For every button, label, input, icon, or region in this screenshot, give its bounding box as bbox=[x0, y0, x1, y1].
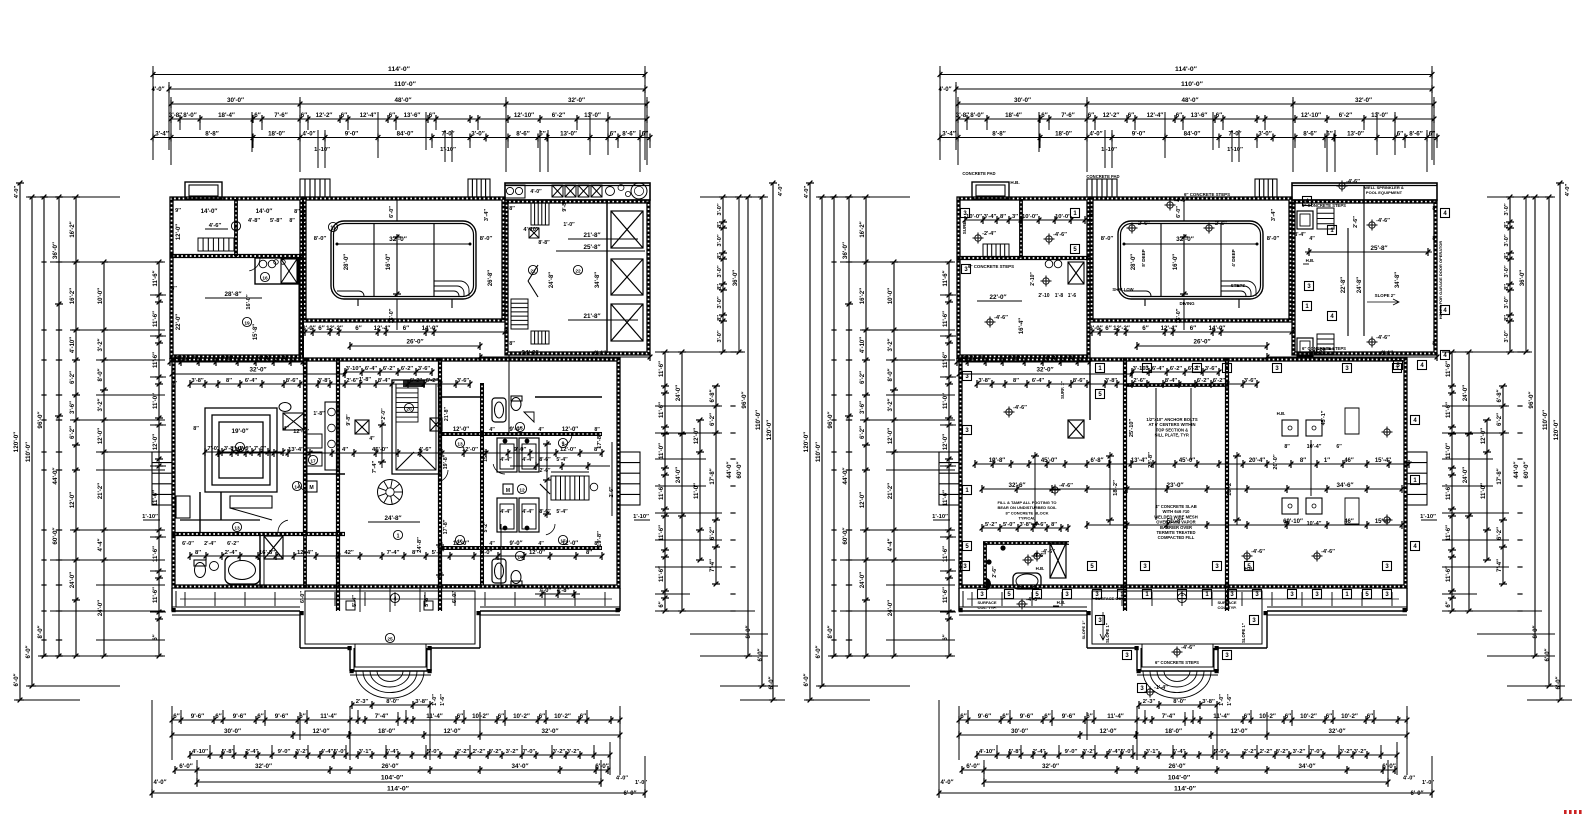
svg-text:8″: 8″ bbox=[171, 286, 177, 292]
svg-text:6″: 6″ bbox=[1002, 713, 1008, 720]
svg-text:1'-6″: 1'-6″ bbox=[440, 694, 446, 706]
svg-text:2'-0″: 2'-0″ bbox=[381, 408, 387, 420]
svg-text:3'-6″: 3'-6″ bbox=[418, 366, 431, 372]
svg-text:12'-4″: 12'-4″ bbox=[297, 550, 313, 556]
svg-text:6'-2″: 6'-2″ bbox=[426, 378, 439, 384]
svg-text:3'-2″: 3'-2″ bbox=[98, 398, 104, 411]
svg-text:3'-6″: 3'-6″ bbox=[1244, 378, 1257, 384]
svg-text:2'-10: 2'-10 bbox=[1038, 293, 1049, 299]
svg-text:6'-0″: 6'-0″ bbox=[1176, 206, 1182, 218]
svg-text:12'-0″: 12'-0″ bbox=[943, 434, 949, 450]
svg-text:10'-2″: 10'-2″ bbox=[513, 713, 530, 720]
svg-text:9'-0″: 9'-0″ bbox=[345, 131, 358, 138]
svg-text:18'-4″: 18'-4″ bbox=[218, 112, 235, 119]
svg-text:96'-0″: 96'-0″ bbox=[1528, 391, 1535, 408]
svg-text:11'-4″: 11'-4″ bbox=[1107, 713, 1124, 720]
svg-text:11'-6″: 11'-6″ bbox=[943, 587, 949, 603]
svg-text:6'-4″: 6'-4″ bbox=[1046, 356, 1059, 362]
svg-text:4'-0″: 4'-0″ bbox=[804, 186, 810, 199]
svg-text:6'-0″: 6'-0″ bbox=[182, 541, 194, 547]
svg-text:18'-0″: 18'-0″ bbox=[1055, 131, 1072, 138]
svg-text:1'-10″: 1'-10″ bbox=[1227, 147, 1243, 153]
svg-text:12'-2″: 12'-2″ bbox=[326, 325, 343, 332]
svg-text:16'-2″: 16'-2″ bbox=[860, 221, 866, 237]
svg-text:12'-0″: 12'-0″ bbox=[443, 728, 460, 735]
svg-text:8″: 8″ bbox=[1432, 341, 1438, 347]
svg-text:5'-2″: 5'-2″ bbox=[483, 521, 489, 532]
svg-text:8'-0″: 8'-0″ bbox=[746, 625, 752, 638]
svg-text:6″: 6″ bbox=[1044, 713, 1050, 720]
svg-text:8'-0″: 8'-0″ bbox=[1089, 325, 1102, 332]
svg-text:6″: 6″ bbox=[429, 112, 435, 119]
svg-text:6'-4″: 6'-4″ bbox=[971, 356, 984, 362]
svg-text:8'-8″: 8'-8″ bbox=[538, 240, 550, 246]
svg-text:120'-0″: 120'-0″ bbox=[803, 432, 810, 453]
svg-text:4″: 4″ bbox=[538, 541, 544, 547]
svg-text:12'-0″: 12'-0″ bbox=[860, 492, 866, 508]
svg-text:13'-4″: 13'-4″ bbox=[1131, 458, 1147, 464]
svg-text:3'-4″: 3'-4″ bbox=[984, 214, 997, 220]
svg-text:SILL PLATE, TYP.: SILL PLATE, TYP. bbox=[1155, 433, 1190, 438]
svg-text:7'-4″: 7'-4″ bbox=[1162, 713, 1175, 720]
svg-text:3'-2″: 3'-2″ bbox=[296, 749, 309, 755]
svg-text:5'-0″: 5'-0″ bbox=[432, 550, 445, 556]
svg-text:8'-2″: 8'-2″ bbox=[489, 749, 502, 755]
svg-text:12'-4″: 12'-4″ bbox=[1147, 112, 1164, 119]
svg-text:12'-0″: 12'-0″ bbox=[312, 728, 329, 735]
svg-text:11'-0″: 11'-0″ bbox=[1481, 483, 1487, 499]
svg-text:11'-4″: 11'-4″ bbox=[320, 713, 337, 720]
svg-text:SLOPE 1″: SLOPE 1″ bbox=[1105, 623, 1110, 643]
svg-text:34'-0″: 34'-0″ bbox=[511, 763, 528, 770]
svg-text:3'-2″: 3'-2″ bbox=[888, 338, 894, 351]
svg-text:3'-0″: 3'-0″ bbox=[717, 296, 723, 308]
svg-text:110'-0″: 110'-0″ bbox=[1542, 410, 1549, 430]
svg-text:13'-0″: 13'-0″ bbox=[584, 112, 601, 119]
svg-text:12'-2″: 12'-2″ bbox=[1103, 112, 1120, 119]
svg-text:DIVING: DIVING bbox=[1179, 301, 1195, 306]
svg-text:19'-8″: 19'-8″ bbox=[989, 458, 1005, 464]
svg-text:2'-6″: 2'-6″ bbox=[992, 566, 998, 578]
svg-text:16'-0″: 16'-0″ bbox=[386, 254, 392, 270]
svg-text:6'-0″: 6'-0″ bbox=[624, 791, 637, 797]
svg-text:4'-4″: 4'-4″ bbox=[169, 356, 182, 362]
svg-text:4'-10″: 4'-10″ bbox=[860, 337, 866, 353]
svg-text:8″: 8″ bbox=[1300, 458, 1306, 464]
svg-text:6″: 6″ bbox=[1367, 713, 1373, 720]
svg-text:3'-0″: 3'-0″ bbox=[471, 131, 484, 138]
svg-text:-4'-6″: -4'-6″ bbox=[1251, 549, 1265, 555]
svg-text:110'-0″: 110'-0″ bbox=[755, 410, 762, 430]
svg-text:12'-0″: 12'-0″ bbox=[453, 427, 469, 433]
svg-text:11'-6″: 11'-6″ bbox=[659, 525, 665, 541]
svg-text:3'-2″: 3'-2″ bbox=[567, 749, 580, 755]
svg-text:8″: 8″ bbox=[171, 381, 177, 387]
svg-text:-4'-6″: -4'-6″ bbox=[1321, 549, 1335, 555]
svg-text:4'-0″: 4'-0″ bbox=[1090, 132, 1103, 138]
svg-text:6″: 6″ bbox=[301, 112, 307, 119]
svg-text:3'-0″: 3'-0″ bbox=[717, 203, 723, 215]
svg-text:6″: 6″ bbox=[1244, 713, 1250, 720]
svg-text:M: M bbox=[309, 485, 313, 491]
svg-text:6'-4″: 6'-4″ bbox=[1152, 366, 1165, 372]
svg-text:9'-6″: 9'-6″ bbox=[978, 713, 991, 720]
svg-text:19: 19 bbox=[244, 320, 250, 326]
svg-text:30'-0″: 30'-0″ bbox=[1014, 97, 1031, 104]
svg-text:10'-4″: 10'-4″ bbox=[1307, 521, 1322, 527]
svg-text:34'-0″: 34'-0″ bbox=[521, 350, 538, 357]
svg-text:96'-0″: 96'-0″ bbox=[741, 391, 748, 408]
svg-text:8″: 8″ bbox=[412, 550, 418, 556]
svg-text:5'-8″: 5'-8″ bbox=[270, 218, 282, 224]
svg-text:13'-6″: 13'-6″ bbox=[1191, 112, 1208, 119]
svg-text:21'-2″: 21'-2″ bbox=[98, 483, 104, 499]
svg-text:TYPICAL: TYPICAL bbox=[1018, 516, 1036, 521]
svg-text:6'-0″: 6'-0″ bbox=[804, 673, 810, 686]
svg-text:22'-8″: 22'-8″ bbox=[1341, 277, 1347, 293]
svg-text:12'-4″: 12'-4″ bbox=[360, 112, 377, 119]
svg-text:6″: 6″ bbox=[389, 112, 395, 119]
svg-text:24'-0″: 24'-0″ bbox=[98, 600, 104, 616]
svg-text:6″: 6″ bbox=[1041, 112, 1047, 119]
svg-text:6″: 6″ bbox=[1336, 444, 1342, 450]
svg-text:9'-0″: 9'-0″ bbox=[1065, 749, 1078, 755]
svg-text:4'-4″: 4'-4″ bbox=[1063, 356, 1076, 362]
svg-text:8'-4″: 8'-4″ bbox=[1294, 232, 1306, 238]
svg-text:32'-0″: 32'-0″ bbox=[1176, 236, 1194, 243]
svg-text:8″: 8″ bbox=[1284, 444, 1290, 450]
svg-text:110'-0″: 110'-0″ bbox=[394, 81, 417, 88]
svg-text:3'-4″: 3'-4″ bbox=[155, 131, 168, 138]
svg-text:3'-1″: 3'-1″ bbox=[1146, 749, 1159, 755]
svg-text:6″: 6″ bbox=[580, 713, 586, 720]
svg-text:1'-0″: 1'-0″ bbox=[1219, 694, 1225, 706]
svg-text:17'-8″: 17'-8″ bbox=[710, 468, 716, 484]
svg-text:-4'-6″: -4'-6″ bbox=[994, 315, 1008, 321]
svg-text:12'-0″: 12'-0″ bbox=[694, 428, 700, 444]
svg-text:4'-10″: 4'-10″ bbox=[192, 749, 208, 755]
svg-text:6'-2″: 6'-2″ bbox=[401, 366, 414, 372]
svg-text:4'-0″: 4'-0″ bbox=[941, 780, 954, 786]
svg-text:7'-6″: 7'-6″ bbox=[274, 112, 287, 119]
svg-text:8″: 8″ bbox=[1504, 222, 1510, 228]
svg-text:8″: 8″ bbox=[1013, 378, 1019, 384]
svg-text:3'-8″: 3'-8″ bbox=[415, 699, 428, 705]
svg-text:12'-0″: 12'-0″ bbox=[1099, 728, 1116, 735]
svg-text:6'-8″: 6'-8″ bbox=[710, 389, 716, 402]
svg-text:7'-0″: 7'-0″ bbox=[539, 588, 552, 594]
svg-text:3'-4″: 3'-4″ bbox=[484, 209, 490, 221]
svg-text:12'-4″: 12'-4″ bbox=[374, 325, 391, 332]
svg-text:12'-0″: 12'-0″ bbox=[453, 541, 469, 547]
svg-text:-4'-6″: -4'-6″ bbox=[1181, 645, 1195, 651]
svg-text:3'-2″: 3'-2″ bbox=[1340, 749, 1353, 755]
svg-text:M: M bbox=[506, 488, 510, 494]
svg-text:4'-4″: 4'-4″ bbox=[500, 457, 512, 463]
svg-text:25'-8″: 25'-8″ bbox=[1370, 245, 1387, 252]
svg-text:6'-2″: 6'-2″ bbox=[1170, 366, 1183, 372]
svg-text:6″: 6″ bbox=[1190, 325, 1196, 332]
svg-text:4' DEEP: 4' DEEP bbox=[1231, 249, 1236, 266]
svg-text:10'-0″: 10'-0″ bbox=[888, 288, 894, 304]
svg-text:114'-0″: 114'-0″ bbox=[387, 786, 410, 793]
svg-text:SURFACE COL.: SURFACE COL. bbox=[1095, 596, 1125, 601]
svg-text:13'-0″: 13'-0″ bbox=[560, 131, 577, 138]
svg-text:6'-0″: 6'-0″ bbox=[966, 763, 980, 770]
svg-text:COMPACTED FILL: COMPACTED FILL bbox=[1158, 535, 1195, 540]
svg-text:-2'-4″: -2'-4″ bbox=[982, 231, 996, 237]
svg-text:28'-8″: 28'-8″ bbox=[224, 291, 241, 298]
svg-text:8'-0″: 8'-0″ bbox=[828, 625, 834, 638]
svg-text:H.B.: H.B. bbox=[1277, 411, 1286, 416]
svg-text:12: 12 bbox=[519, 487, 525, 493]
svg-text:3'-8″: 3'-8″ bbox=[1105, 378, 1118, 384]
svg-text:8″: 8″ bbox=[1432, 206, 1438, 212]
svg-text:25'-8″: 25'-8″ bbox=[583, 244, 600, 251]
svg-text:SURF. 1″: SURF. 1″ bbox=[1060, 381, 1065, 399]
svg-text:8'-8″: 8'-8″ bbox=[992, 131, 1005, 138]
svg-text:12'-0″: 12'-0″ bbox=[231, 447, 247, 453]
svg-text:4'-0″: 4'-0″ bbox=[1403, 776, 1415, 782]
svg-text:H.B.: H.B. bbox=[1306, 258, 1315, 263]
svg-text:8″: 8″ bbox=[289, 218, 295, 224]
svg-text:12'-0″: 12'-0″ bbox=[176, 224, 182, 240]
svg-text:60'-0″: 60'-0″ bbox=[736, 461, 743, 478]
svg-text:12'-0″: 12'-0″ bbox=[562, 427, 578, 433]
svg-text:11'-6″: 11'-6″ bbox=[153, 587, 159, 603]
svg-text:1: 1 bbox=[397, 533, 400, 539]
svg-text:110'-0″: 110'-0″ bbox=[25, 442, 32, 462]
svg-text:45'-0″: 45'-0″ bbox=[372, 447, 388, 453]
svg-text:6'-0″: 6'-0″ bbox=[300, 591, 306, 603]
svg-text:44'-0″: 44'-0″ bbox=[1513, 461, 1520, 478]
svg-text:4'-0″: 4'-0″ bbox=[14, 186, 20, 199]
svg-text:4'-6″: 4'-6″ bbox=[419, 447, 432, 453]
svg-text:4'-0″: 4'-0″ bbox=[154, 780, 167, 786]
svg-text:3'-8″: 3'-8″ bbox=[1019, 522, 1031, 528]
svg-text:5'-0″: 5'-0″ bbox=[1121, 749, 1134, 755]
svg-text:8'-0″: 8'-0″ bbox=[1173, 699, 1186, 705]
svg-text:12'-0″: 12'-0″ bbox=[153, 434, 159, 450]
svg-text:20'-4″: 20'-4″ bbox=[1249, 458, 1265, 464]
svg-text:6″: 6″ bbox=[318, 325, 324, 332]
svg-text:3'-0″: 3'-0″ bbox=[1504, 203, 1510, 215]
svg-text:4″: 4″ bbox=[369, 436, 375, 442]
svg-text:32'-0″: 32'-0″ bbox=[255, 763, 272, 770]
svg-text:2'-6″: 2'-6″ bbox=[346, 378, 359, 384]
svg-text:2'-3″: 2'-3″ bbox=[356, 699, 369, 705]
svg-text:10'-0″: 10'-0″ bbox=[1022, 214, 1038, 220]
svg-text:24'-8″: 24'-8″ bbox=[1357, 277, 1363, 293]
svg-text:8'-6″: 8'-6″ bbox=[516, 131, 529, 138]
svg-text:3'-8″: 3'-8″ bbox=[978, 378, 991, 384]
svg-text:6″: 6″ bbox=[498, 713, 504, 720]
svg-text:8'-0″: 8'-0″ bbox=[1533, 625, 1539, 638]
svg-text:6″: 6″ bbox=[403, 325, 409, 332]
svg-text:84'-0″: 84'-0″ bbox=[1184, 131, 1201, 138]
svg-text:-1'-4″: -1'-4″ bbox=[1154, 685, 1168, 691]
svg-text:34'-0″: 34'-0″ bbox=[1298, 763, 1315, 770]
svg-text:3'-6″: 3'-6″ bbox=[1205, 366, 1218, 372]
svg-text:11'-6″: 11'-6″ bbox=[659, 402, 665, 418]
svg-text:3'-0″: 3'-0″ bbox=[1504, 234, 1510, 246]
svg-text:6'-0″: 6'-0″ bbox=[389, 206, 395, 218]
svg-text:6″ CONCRETE STEPS: 6″ CONCRETE STEPS bbox=[1155, 660, 1199, 665]
svg-text:4'-4″: 4'-4″ bbox=[500, 509, 512, 515]
svg-text:16: 16 bbox=[262, 275, 268, 281]
svg-text:9: 9 bbox=[562, 441, 565, 447]
svg-text:4'-8″: 4'-8″ bbox=[248, 218, 260, 224]
svg-text:6'-0″: 6'-0″ bbox=[758, 648, 764, 661]
svg-text:9'-0″: 9'-0″ bbox=[1132, 131, 1145, 138]
svg-text:8″: 8″ bbox=[1051, 522, 1057, 528]
svg-text:6'-0″: 6'-0″ bbox=[179, 763, 193, 770]
svg-text:10'-2″: 10'-2″ bbox=[554, 713, 571, 720]
svg-text:120'-0″: 120'-0″ bbox=[1553, 420, 1560, 441]
svg-text:26'-0″: 26'-0″ bbox=[381, 763, 398, 770]
svg-text:10'-2″: 10'-2″ bbox=[1341, 713, 1358, 720]
svg-text:8'-0″: 8'-0″ bbox=[1267, 236, 1280, 242]
svg-text:5'-0″: 5'-0″ bbox=[334, 749, 347, 755]
svg-text:9'-0″: 9'-0″ bbox=[514, 447, 527, 453]
svg-text:4'-10″: 4'-10″ bbox=[979, 749, 995, 755]
svg-text:18'-0″: 18'-0″ bbox=[268, 131, 285, 138]
svg-text:12'-2″: 12'-2″ bbox=[316, 112, 333, 119]
svg-text:32'-0″: 32'-0″ bbox=[1328, 728, 1345, 735]
svg-text:15'-4″: 15'-4″ bbox=[1375, 458, 1391, 464]
svg-text:3'-8″: 3'-8″ bbox=[1202, 699, 1215, 705]
svg-text:1'-8: 1'-8 bbox=[1055, 293, 1064, 299]
svg-text:8″: 8″ bbox=[1000, 214, 1006, 220]
svg-text:6″: 6″ bbox=[173, 713, 179, 720]
svg-text:42″: 42″ bbox=[344, 550, 354, 556]
svg-text:104'-0″: 104'-0″ bbox=[1168, 775, 1191, 782]
svg-text:28'-8″: 28'-8″ bbox=[1148, 452, 1154, 468]
svg-text:4'-0″: 4'-0″ bbox=[303, 132, 316, 138]
svg-text:21'-8″: 21'-8″ bbox=[583, 313, 600, 320]
svg-text:-4'-6″: -4'-6″ bbox=[1013, 405, 1027, 411]
svg-text:8'-8″: 8'-8″ bbox=[205, 131, 218, 138]
svg-text:2'-10″: 2'-10″ bbox=[1030, 272, 1036, 286]
svg-text:24'-0″: 24'-0″ bbox=[676, 385, 682, 401]
svg-text:6″: 6″ bbox=[1285, 713, 1291, 720]
svg-text:6″: 6″ bbox=[960, 713, 966, 720]
svg-text:-4'-6″: -4'-6″ bbox=[1053, 232, 1067, 238]
svg-text:SLOPE 1″: SLOPE 1″ bbox=[1081, 621, 1086, 640]
svg-text:6″: 6″ bbox=[659, 601, 665, 607]
svg-text:14'-0″: 14'-0″ bbox=[422, 325, 439, 332]
svg-text:24'-8″: 24'-8″ bbox=[549, 272, 555, 288]
svg-text:13'-0″: 13'-0″ bbox=[1371, 112, 1388, 119]
svg-text:6″: 6″ bbox=[254, 112, 260, 119]
svg-text:3'-8″: 3'-8″ bbox=[318, 378, 331, 384]
svg-text:7'-4″: 7'-4″ bbox=[375, 713, 388, 720]
svg-text:5'-4″: 5'-4″ bbox=[556, 509, 568, 515]
svg-text:3'-8″: 3'-8″ bbox=[191, 378, 204, 384]
svg-text:8'-0″: 8'-0″ bbox=[888, 368, 894, 381]
svg-text:2'-3″: 2'-3″ bbox=[1143, 699, 1156, 705]
svg-text:32'-0″: 32'-0″ bbox=[1036, 367, 1053, 374]
svg-text:6″ CONCRETE STEPS: 6″ CONCRETE STEPS bbox=[1302, 346, 1346, 351]
svg-text:8″: 8″ bbox=[717, 253, 723, 259]
svg-text:SHALLOW: SHALLOW bbox=[1112, 287, 1133, 292]
svg-text:16'-2″: 16'-2″ bbox=[70, 221, 76, 237]
svg-text:6″: 6″ bbox=[355, 325, 361, 332]
svg-text:84'-0″: 84'-0″ bbox=[397, 131, 414, 138]
svg-text:12'-10″: 12'-10″ bbox=[1301, 112, 1321, 119]
svg-text:36'-0″: 36'-0″ bbox=[1520, 270, 1526, 286]
svg-text:3'-1″: 3'-1″ bbox=[359, 749, 372, 755]
svg-text:46″: 46″ bbox=[1344, 458, 1354, 464]
svg-text:120'-0″: 120'-0″ bbox=[766, 420, 773, 441]
svg-text:6″: 6″ bbox=[1397, 131, 1403, 138]
svg-text:6'-8″: 6'-8″ bbox=[1091, 458, 1104, 464]
svg-text:19'-0″: 19'-0″ bbox=[231, 428, 248, 435]
svg-text:26'-0″: 26'-0″ bbox=[1168, 763, 1185, 770]
svg-text:3'-4″: 3'-4″ bbox=[942, 131, 955, 138]
svg-text:25: 25 bbox=[387, 636, 393, 642]
svg-text:4'-10″: 4'-10″ bbox=[70, 337, 76, 353]
svg-text:1'-10″: 1'-10″ bbox=[1101, 147, 1117, 153]
svg-text:12'-2″: 12'-2″ bbox=[1113, 325, 1130, 332]
svg-text:6″ CONCRETE STEPS: 6″ CONCRETE STEPS bbox=[1184, 192, 1230, 197]
svg-text:114'-0″: 114'-0″ bbox=[1175, 66, 1198, 73]
svg-text:8″: 8″ bbox=[509, 341, 515, 347]
svg-text:1'-10″: 1'-10″ bbox=[1420, 514, 1436, 520]
svg-text:30'-0″: 30'-0″ bbox=[227, 97, 244, 104]
svg-text:14'-0″: 14'-0″ bbox=[1209, 325, 1226, 332]
svg-text:14'-10″: 14'-10″ bbox=[1089, 207, 1095, 226]
svg-text:8″: 8″ bbox=[193, 426, 199, 432]
svg-text:8'-6″: 8'-6″ bbox=[539, 457, 551, 463]
svg-text:11'-0″: 11'-0″ bbox=[1446, 443, 1452, 459]
svg-text:3'-0″: 3'-0″ bbox=[717, 330, 723, 342]
svg-text:5'-2″: 5'-2″ bbox=[985, 522, 997, 528]
svg-text:6″: 6″ bbox=[1326, 713, 1332, 720]
svg-text:H.B.: H.B. bbox=[1245, 566, 1254, 571]
svg-text:24'-0″: 24'-0″ bbox=[888, 600, 894, 616]
svg-text:3'-6″: 3'-6″ bbox=[860, 401, 866, 414]
svg-text:6″: 6″ bbox=[215, 713, 221, 720]
svg-text:6″: 6″ bbox=[539, 713, 545, 720]
svg-text:51'-8″: 51'-8″ bbox=[1167, 519, 1183, 525]
svg-text:3'-6″: 3'-6″ bbox=[457, 378, 470, 384]
svg-text:36'-0″: 36'-0″ bbox=[52, 242, 59, 259]
svg-text:11'-6″: 11'-6″ bbox=[153, 270, 159, 286]
svg-text:9'-0″: 9'-0″ bbox=[510, 427, 523, 433]
svg-text:8″: 8″ bbox=[1504, 253, 1510, 259]
svg-text:2'-4″: 2'-4″ bbox=[204, 541, 216, 547]
svg-text:6'-0″: 6'-0″ bbox=[26, 645, 32, 658]
svg-text:6″: 6″ bbox=[1128, 112, 1134, 119]
svg-text:8'-0″: 8'-0″ bbox=[386, 699, 399, 705]
svg-text:4'-4″: 4'-4″ bbox=[956, 356, 969, 362]
svg-text:3'-2″: 3'-2″ bbox=[888, 398, 894, 411]
svg-text:1'-10″: 1'-10″ bbox=[633, 514, 649, 520]
svg-text:26'-0″: 26'-0″ bbox=[406, 339, 423, 346]
svg-text:1'-10″: 1'-10″ bbox=[440, 147, 456, 153]
svg-text:11'-6″: 11'-6″ bbox=[659, 361, 665, 377]
svg-text:6'-0″: 6'-0″ bbox=[1382, 763, 1396, 770]
svg-text:8'-0″: 8'-0″ bbox=[480, 236, 493, 242]
svg-text:6'-0″: 6'-0″ bbox=[14, 673, 20, 686]
svg-text:2'-4″: 2'-4″ bbox=[225, 550, 238, 556]
svg-text:48'-0″: 48'-0″ bbox=[394, 97, 411, 104]
svg-text:4'-4″: 4'-4″ bbox=[276, 356, 289, 362]
svg-text:4'-4″: 4'-4″ bbox=[98, 538, 104, 551]
svg-text:2'-6″: 2'-6″ bbox=[1353, 216, 1359, 228]
svg-text:H.B.: H.B. bbox=[1036, 566, 1045, 571]
